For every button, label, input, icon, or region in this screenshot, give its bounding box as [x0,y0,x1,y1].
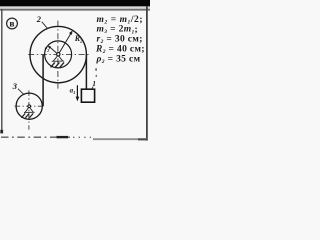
pulley 2 axle support triangle [52,55,64,61]
pulley 2 outer circle R2 [30,26,86,82]
right frame border [146,6,148,141]
pulley 3 circle [16,93,42,119]
radius arrow r2 [48,45,59,54]
pulley 2 axle dot [57,53,60,56]
pulley 3 horizontal centerline [15,105,45,107]
left frame border [1,9,3,133]
label 3 with leader [12,81,24,95]
bottom frame dash-dot line [1,137,147,139]
pulley 2 inner circle r2 [45,41,72,68]
svg-text:3: 3 [12,81,18,91]
pulley 3 axle support triangle [24,107,35,113]
svg-text:r2 = 30 см;: r2 = 30 см; [97,35,143,46]
bottom-left corner blob [0,130,3,134]
label 1 with leader [91,79,96,89]
pulley 2 support hatching [51,62,64,67]
svg-text:2: 2 [36,14,42,24]
pulley 2 horizontal centerline [28,54,90,56]
radius arrow R2 [58,30,72,54]
pulley 3 axle dot [28,105,31,108]
weight 1 box [81,89,94,102]
pulley 3 support hatching [21,113,33,117]
variant letter circled в [7,18,18,30]
rope from inner step of pulley 2 down to pulley 3 [42,55,44,107]
scan specks [95,68,97,77]
top scan black band [0,0,150,6]
rope from outer rim of pulley 2 down to weight 1 [85,55,87,90]
top frame border line [0,6,150,9]
pulley 2 vertical centerline [57,21,59,89]
svg-text:R2 = 40 см;: R2 = 40 см; [95,45,145,56]
svg-text:в: в [9,20,14,30]
label 2 with leader [36,14,48,29]
acceleration arrow a1 [76,85,80,101]
pulley 3 vertical centerline [28,90,30,129]
